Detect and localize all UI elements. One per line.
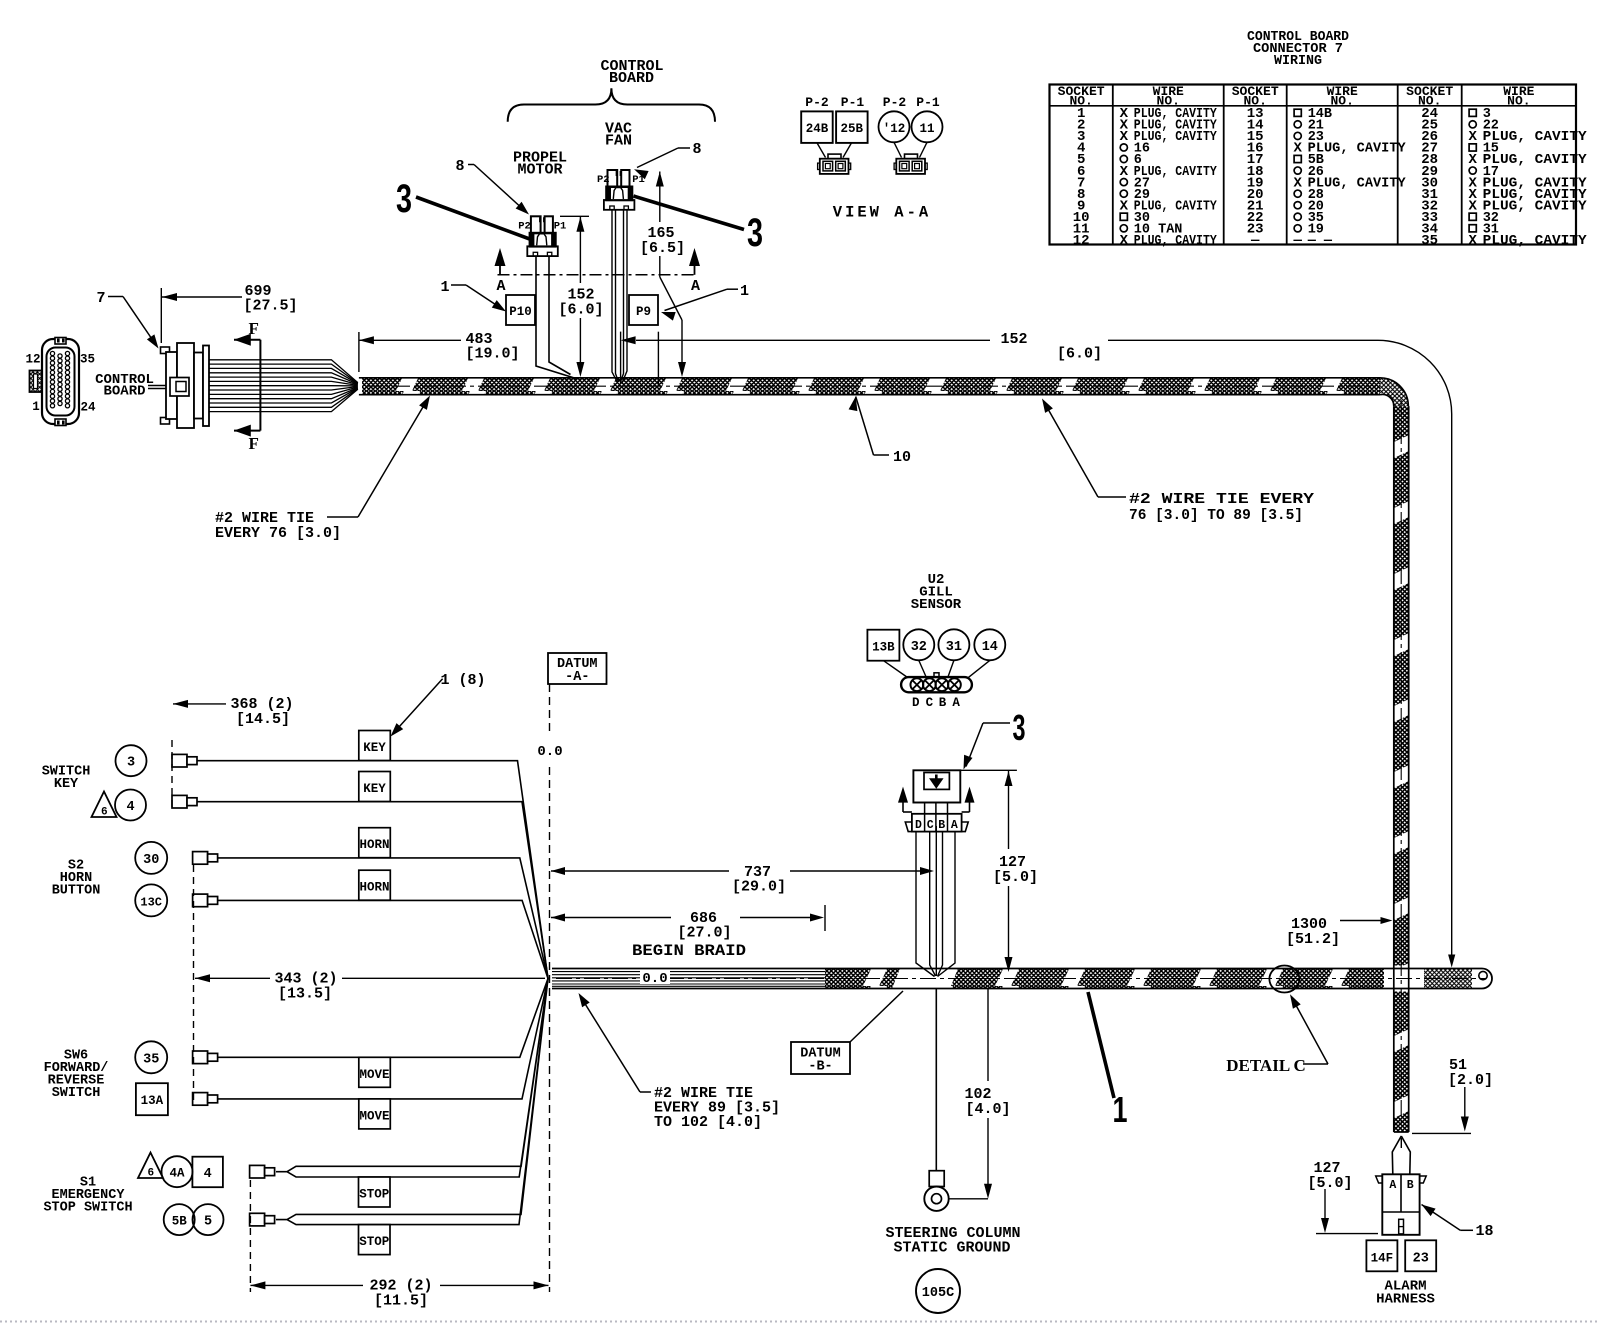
svg-text:HORN: HORN [359,838,389,852]
svg-text:MOVE: MOVE [359,1109,389,1123]
svg-text:18: 18 [1475,1223,1493,1240]
svg-text:13B: 13B [872,641,895,655]
wire: main harness braid, lower run [825,969,1384,989]
detail C circle [1269,966,1299,993]
connector P10 propel motor plug [527,216,558,256]
svg-text:[2.0]: [2.0] [1448,1072,1493,1089]
svg-text:D: D [912,696,920,710]
svg-text:—: — [1292,233,1302,249]
sensor connector DCBA cells [924,803,926,814]
mini connector under 12/11 [894,154,927,174]
svg-text:24: 24 [80,401,96,415]
terminal row3 [193,852,208,865]
terminal row8 [250,1213,265,1226]
label box STOP 2 [359,1225,391,1255]
svg-text:SWITCH: SWITCH [52,1086,101,1101]
svg-text:P1: P1 [554,221,567,233]
svg-text:6: 6 [147,1168,154,1180]
wire: lower braid end cap [1472,969,1492,989]
svg-text:4A: 4A [169,1167,185,1181]
svg-text:A: A [952,696,960,710]
wire id square 14F [1366,1240,1397,1271]
svg-text:X: X [1120,198,1129,214]
svg-text:P9: P9 [636,305,651,319]
svg-text:13A: 13A [141,1094,164,1108]
box P9 [629,295,658,325]
svg-text:1: 1 [32,400,40,414]
svg-text:25B: 25B [841,122,864,136]
svg-text:35: 35 [143,1052,159,1067]
svg-text:PLUG, CAVITY: PLUG, CAVITY [1134,234,1218,249]
label box KEY 1 [359,731,391,761]
wire id circle 30 [135,842,167,874]
wire id circle 32 [903,629,934,660]
svg-text:6: 6 [101,807,108,819]
DATUM -B- box [791,1042,850,1074]
svg-text:NO.: NO. [1330,94,1353,109]
mini connector under 24B/25B [818,154,851,174]
svg-text:[27.5]: [27.5] [243,298,297,315]
terminal row7 [250,1165,265,1178]
svg-text:DETAIL C: DETAIL C [1226,1056,1306,1075]
svg-text:105C: 105C [922,1286,954,1301]
svg-text:WIRING: WIRING [1274,53,1322,69]
leader 10 to braid [849,397,858,412]
svg-text:11: 11 [919,122,934,136]
label box HORN 2 [359,870,391,900]
svg-text:-A-: -A- [565,670,589,685]
svg-text:KEY: KEY [54,777,79,792]
svg-text:HARNESS: HARNESS [1376,1292,1435,1308]
svg-text:24B: 24B [806,122,829,136]
wire id square 4 [192,1157,223,1188]
terminal row1 [172,754,187,767]
svg-text:[6.0]: [6.0] [558,302,603,319]
svg-text:P-2: P-2 [805,95,829,110]
label 0.0 on bundle [640,970,670,985]
svg-text:X: X [1468,233,1477,249]
svg-text:BUTTON: BUTTON [52,884,101,899]
wire id square 13B [867,630,899,661]
svg-text:152: 152 [1000,331,1027,348]
terminal row2 [172,795,187,808]
connector J1 pins [50,351,69,407]
svg-text:A: A [691,278,700,295]
datum B leader [850,991,903,1042]
svg-text:7: 7 [96,290,105,307]
svg-text:NO.: NO. [1507,94,1530,109]
svg-text:[5.0]: [5.0] [993,869,1038,886]
svg-text:[29.0]: [29.0] [732,879,786,896]
svg-text:#2 WIRE TIE EVERY: #2 WIRE TIE EVERY [1129,491,1314,508]
connector P9 vac fan plug [604,170,635,210]
label box KEY 2 [359,772,391,802]
svg-text:[27.0]: [27.0] [677,925,731,942]
svg-text:3: 3 [747,211,763,255]
centerline: upper braid [366,385,1376,387]
wire id circle 14 [974,629,1005,660]
wires from J1 fanning into braid [209,360,358,383]
wire pair emergency stop 2 [276,979,548,1225]
wire pair emergency stop 1 [276,979,548,1178]
dim 483 [19.0] [358,332,360,372]
svg-text:STOP: STOP [359,1235,389,1249]
svg-text:3: 3 [1013,707,1026,748]
dim 368 (2) [14.5] [171,740,173,810]
svg-text:— —: — — [1307,234,1333,249]
wires from switches to fan point [197,761,548,979]
svg-text:F: F [249,434,259,453]
extension line at vac wire [620,332,622,383]
wire id circle 3 [116,745,147,776]
svg-text:35: 35 [1421,233,1438,249]
svg-text:KEY: KEY [363,782,386,796]
dim 292 (2) [11.5] [249,1180,251,1292]
sensor wires to braid [916,832,935,977]
svg-text:[19.0]: [19.0] [465,346,519,363]
svg-text:B: B [1407,1179,1414,1192]
circle 105C [916,1269,960,1313]
svg-text:FAN: FAN [605,133,632,150]
svg-text:32: 32 [911,640,927,655]
dim 152 [6.0] center [576,217,584,232]
svg-text:C: C [926,696,934,710]
svg-text:12: 12 [25,353,40,367]
svg-text:14F: 14F [1371,1251,1394,1265]
connector J1 side latch [170,378,189,397]
svg-text:8: 8 [692,141,701,158]
dim 127 [5.0] sensor [961,769,1017,771]
svg-text:1: 1 [440,279,449,296]
section A-A dashed line [498,274,695,276]
svg-text:10: 10 [893,449,911,466]
svg-text:X: X [1468,129,1477,145]
svg-text:35: 35 [80,353,95,367]
svg-text:BOARD: BOARD [103,384,145,400]
box 25B [836,111,868,142]
svg-text:X: X [1293,141,1302,157]
svg-text:F: F [249,319,259,338]
wire: harness braid corner bend [1380,378,1408,406]
svg-text:X: X [1120,164,1129,180]
extension line at P9 right [657,332,659,386]
svg-text:3: 3 [127,756,135,771]
leader 18 [1422,1205,1436,1217]
svg-text:P-1: P-1 [841,95,865,110]
svg-text:4: 4 [204,1167,212,1182]
svg-text:—: — [1250,233,1260,249]
label box MOVE 1 [359,1057,391,1087]
svg-text:C: C [927,819,934,832]
svg-text:[4.0]: [4.0] [965,1101,1010,1118]
wire id circle 5 [193,1204,224,1235]
svg-text:A: A [951,819,958,832]
datum A dashed line [549,684,551,733]
svg-text:'12: '12 [883,122,906,136]
svg-text:KEY: KEY [363,741,386,755]
dim 152 [6.0] top right with curve to bottom braid [621,336,636,344]
dim 102 [4.0] [987,989,989,1081]
svg-text:D: D [915,819,922,832]
svg-text:B: B [939,696,947,710]
svg-text:TO 102 [4.0]: TO 102 [4.0] [654,1114,762,1131]
arrows up beside sensor connector [903,811,912,813]
svg-text:[13.5]: [13.5] [278,986,332,1003]
ground wire to steering column [935,989,937,1172]
wire id circle 31 [938,629,969,660]
svg-text:8: 8 [455,158,464,175]
svg-text:13C: 13C [140,895,162,909]
ring terminal [929,1171,944,1187]
svg-text:[5.0]: [5.0] [1307,1175,1352,1192]
box 24B [801,111,833,142]
wire id circle 4 [115,790,146,821]
svg-text:0.0: 0.0 [642,971,667,987]
table frame [1050,85,1577,245]
terminal row4 [193,894,208,907]
svg-text:BEGIN BRAID: BEGIN BRAID [632,942,746,960]
label box STOP 1 [359,1177,391,1207]
svg-text:X: X [1120,233,1129,249]
svg-text:-B-: -B- [808,1060,832,1075]
sensor connector body [913,770,960,802]
wire id circle 4A [162,1156,193,1187]
svg-text:MOTOR: MOTOR [517,162,562,179]
svg-text:[6.0]: [6.0] [1057,346,1102,363]
warning triangle 6 row7 [138,1153,163,1179]
centerline: vertical braid [1400,400,1402,1130]
svg-text:5: 5 [204,1215,212,1230]
centerline: lower braid [556,978,1486,980]
braid funnel to alarm connector [1392,1136,1410,1174]
svg-text:EVERY 76 [3.0]: EVERY 76 [3.0] [215,525,341,542]
svg-text:12: 12 [1073,233,1090,249]
bottom page border dotted [0,1321,1600,1323]
svg-text:P-2: P-2 [883,95,907,110]
wire id square 13A [136,1083,168,1115]
wires vac fan to braid [612,210,618,383]
wire id circle 13C [135,884,167,916]
svg-text:X: X [1293,175,1302,191]
svg-text:5B: 5B [172,1215,188,1229]
wire: main harness braid, upper run [362,378,1380,395]
terminal row6 [193,1093,208,1106]
svg-text:X: X [1468,198,1477,214]
svg-text:P2: P2 [518,221,531,233]
section F-F marks [259,340,261,431]
svg-text:STOP: STOP [359,1188,389,1202]
label box HORN 1 [359,828,391,858]
wire: unbraided bundle from switch fan to BEGIN BRAID [552,968,825,970]
svg-text:VIEW A-A: VIEW A-A [833,204,931,222]
label box MOVE 2 [359,1099,391,1129]
svg-text:[6.5]: [6.5] [640,240,685,257]
svg-text:P2: P2 [597,174,610,186]
svg-text:31: 31 [946,640,962,655]
svg-text:23: 23 [1413,1251,1429,1266]
svg-text:X: X [1120,129,1129,145]
svg-text:30: 30 [143,853,159,868]
svg-text:0.0: 0.0 [537,744,562,760]
svg-text:[11.5]: [11.5] [374,1293,428,1310]
svg-text:MOVE: MOVE [359,1068,389,1082]
wire: harness braid, vertical run [1394,406,1409,965]
svg-text:B: B [938,819,945,832]
svg-text:P-1: P-1 [916,95,940,110]
brace [508,88,715,122]
dim 165 [6.5] [656,172,664,187]
connector J1 latch [30,371,43,393]
alarm connector body [1382,1174,1419,1235]
svg-text:X: X [1468,152,1477,168]
svg-text:P10: P10 [509,305,532,319]
svg-text:STATIC GROUND: STATIC GROUND [893,1240,1010,1257]
wire id square 23 [1405,1240,1436,1271]
wire id circle 35 [135,1041,167,1073]
wires propel motor to braid [536,256,576,378]
svg-text:14: 14 [982,640,998,655]
svg-text:HORN: HORN [359,881,389,895]
box P10 [506,295,535,325]
svg-text:4: 4 [126,800,134,815]
terminal row5 [193,1051,208,1064]
sensor connector side wings [905,822,968,832]
svg-text:1 (8): 1 (8) [440,672,485,689]
svg-text:PLUG, CAVITY: PLUG, CAVITY [1483,234,1588,249]
DATUM -A- box [548,653,607,684]
svg-text:A: A [1389,1179,1396,1192]
dim 737 [29.0] [551,867,565,875]
dim 686 [27.0] [551,914,565,922]
svg-text:[14.5]: [14.5] [236,711,290,728]
svg-text:A: A [496,278,505,295]
wire id circle 5B [164,1204,195,1235]
dim 343 (2) [13.5] [193,865,195,1105]
connector J1 side view [161,347,170,354]
svg-text:SENSOR: SENSOR [911,597,962,613]
circle 12 [879,111,910,142]
warning triangle 6 row2 [92,792,117,818]
svg-text:STOP SWITCH: STOP SWITCH [43,1201,132,1216]
connector J1 control board, face view [42,339,79,424]
svg-text:76 [3.0] TO 89 [3.5]: 76 [3.0] TO 89 [3.5] [1129,507,1303,524]
circle 11 [912,111,943,142]
svg-text:3: 3 [396,177,412,221]
svg-text:BOARD: BOARD [609,70,654,87]
sensor mating face (stadium with 4 sockets) [901,677,972,692]
svg-text:[51.2]: [51.2] [1286,931,1340,948]
svg-text:1: 1 [740,283,749,300]
leaders to sensor connector oval [884,661,908,678]
dim 699 [27.5] [160,288,162,343]
